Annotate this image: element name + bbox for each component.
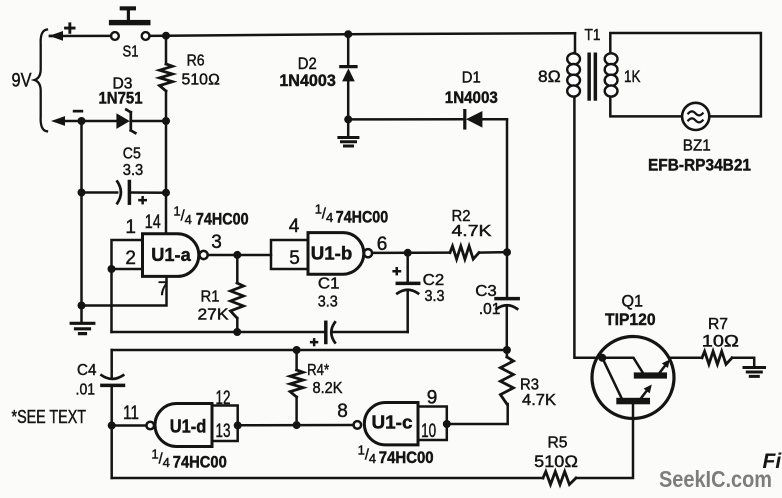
- svg-text:8: 8: [337, 401, 348, 422]
- wire U1-a input bracket pins 1,2: [112, 240, 143, 332]
- wire pin 3 to U1-b inputs: [208, 254, 271, 257]
- svg-text:4.7K: 4.7K: [522, 392, 557, 409]
- svg-text:4.7K: 4.7K: [452, 223, 493, 240]
- diode D1 1N4003: [348, 70, 507, 128]
- svg-text:5: 5: [289, 248, 300, 269]
- svg-text:Q1: Q1: [621, 293, 643, 311]
- wire left column (C5 / ground): [80, 121, 83, 306]
- svg-text:EFB-RP34B21: EFB-RP34B21: [648, 155, 751, 174]
- gate U1-d NAND 74HC00: [146, 404, 212, 447]
- ground (D2 node): [339, 119, 358, 146]
- node negative terminal arrow: [51, 116, 65, 126]
- ground (R7): [744, 368, 765, 377]
- svg-text:T1: T1: [585, 27, 601, 44]
- wire lower oscillator rail: [112, 349, 507, 352]
- svg-text:3.3: 3.3: [425, 288, 445, 305]
- svg-text:8.2K: 8.2K: [313, 380, 344, 397]
- svg-text:510Ω: 510Ω: [182, 71, 221, 88]
- gate U1-c NAND 74HC00: [354, 403, 419, 445]
- svg-text:BZ1: BZ1: [683, 137, 711, 154]
- svg-text:D1: D1: [462, 70, 481, 87]
- svg-text:3.3: 3.3: [123, 162, 144, 179]
- svg-text:R7: R7: [708, 316, 728, 333]
- label 1/4 74HC00 (U1-c): [358, 443, 434, 468]
- svg-text:14: 14: [145, 212, 161, 233]
- svg-text:1: 1: [125, 217, 136, 238]
- capacitor C5 3.3: [82, 146, 167, 205]
- wire U1-d output row: [238, 424, 354, 427]
- ground (C5 / pin 7): [71, 306, 94, 334]
- svg-text:3.3: 3.3: [318, 294, 338, 311]
- svg-text:2: 2: [125, 248, 136, 269]
- resistor R7 10ohm: [702, 316, 740, 365]
- svg-text:TIP120: TIP120: [605, 311, 656, 329]
- svg-text:C5: C5: [123, 146, 141, 163]
- svg-text:C2: C2: [423, 272, 445, 289]
- svg-text:1N4003: 1N4003: [279, 72, 336, 90]
- svg-text:S1: S1: [123, 44, 139, 61]
- label 1/4 74HC00 (U1-a): [173, 204, 248, 229]
- svg-text:Fi: Fi: [763, 450, 782, 473]
- svg-text:1N4003: 1N4003: [445, 89, 498, 107]
- resistor R6 510ohm: [160, 36, 221, 121]
- wire emitter to R7: [670, 358, 755, 366]
- svg-text:74HC00: 74HC00: [336, 209, 388, 227]
- diode D2 1N4003: [279, 34, 356, 119]
- svg-text:C1: C1: [318, 276, 340, 293]
- wire feedback line (pin 2 to C1): [112, 331, 326, 334]
- resistor R2 4.7K: [450, 208, 492, 259]
- svg-text:U1-d: U1-d: [170, 417, 207, 437]
- svg-text:10Ω: 10Ω: [702, 333, 740, 351]
- svg-text:9V: 9V: [12, 71, 32, 92]
- svg-text:R6: R6: [187, 53, 205, 70]
- svg-text:12: 12: [216, 388, 231, 409]
- svg-text:.01: .01: [479, 301, 501, 318]
- label 1/4 74HC00 (U1-d): [151, 447, 226, 472]
- svg-text:.01: .01: [76, 382, 96, 399]
- wire pin 7 to ground: [82, 276, 167, 305]
- node positive terminal arrow: [49, 31, 63, 41]
- resistor R1 27K: [198, 255, 244, 332]
- svg-text:10: 10: [421, 421, 436, 442]
- wire pins 9/10 to R3: [447, 404, 508, 424]
- svg-text:1K: 1K: [624, 68, 641, 86]
- wire collector feed from T1: [574, 96, 602, 358]
- svg-text:D2: D2: [298, 55, 317, 73]
- resistor R3 4.7K: [500, 350, 556, 409]
- wire pin 11 lead: [112, 424, 147, 427]
- wire U1-b input bracket pins 4,5: [271, 240, 308, 269]
- svg-text:11: 11: [123, 403, 139, 424]
- svg-text:R3: R3: [520, 377, 539, 394]
- wire U1-d input box pins 12,13: [212, 406, 238, 442]
- capacitor C4 .01: [76, 350, 124, 478]
- capacitor C1 3.3: [310, 276, 408, 347]
- transistor Q1 TIP120: [592, 293, 674, 419]
- svg-text:C4: C4: [77, 362, 97, 379]
- resistor R5 510ohm: [534, 435, 578, 485]
- wire pin 6 line: [372, 251, 507, 254]
- svg-text:R4*: R4*: [307, 362, 329, 379]
- wire D1 column: [506, 119, 509, 252]
- svg-text:R1: R1: [201, 289, 220, 306]
- svg-text:C3: C3: [475, 283, 497, 300]
- svg-text:74HC00: 74HC00: [196, 211, 249, 229]
- wire D3 node column: [165, 121, 168, 234]
- wire bottom rail: [112, 404, 633, 478]
- svg-text:U1-b: U1-b: [311, 244, 353, 264]
- wire top supply rail: [50, 33, 575, 36]
- svg-text:510Ω: 510Ω: [534, 453, 578, 471]
- capacitor C3 .01: [475, 252, 518, 350]
- svg-text:4: 4: [289, 216, 300, 237]
- resistor R4* 8.2K: [290, 350, 343, 425]
- gate U1-b NAND 74HC00: [308, 233, 372, 275]
- transformer T1: [538, 27, 761, 117]
- gate U1-a NAND 74HC00: [143, 234, 208, 277]
- battery 9V brace: [12, 22, 84, 131]
- zener diode D3 1N751: [99, 75, 143, 133]
- svg-text:U1-c: U1-c: [372, 413, 413, 433]
- svg-text:13: 13: [216, 421, 231, 442]
- svg-text:8Ω: 8Ω: [538, 68, 561, 86]
- buzzer BZ1 EFB-RP34B21: [648, 103, 751, 175]
- svg-text:74HC00: 74HC00: [173, 454, 227, 472]
- wire U1-c input box pins 9,10: [418, 407, 447, 441]
- svg-text:R5: R5: [548, 435, 568, 452]
- svg-text:27K: 27K: [198, 306, 230, 323]
- svg-text:3: 3: [211, 232, 222, 253]
- wire negative lead: [64, 120, 166, 123]
- svg-text:9: 9: [427, 388, 438, 409]
- svg-text:SeekIC.com: SeekIC.com: [659, 466, 772, 492]
- svg-text:1N751: 1N751: [99, 90, 143, 108]
- switch S1 pushbutton: [109, 6, 151, 60]
- svg-text:*SEE TEXT: *SEE TEXT: [12, 407, 87, 427]
- label 1/4 74HC00 (U1-b): [315, 202, 388, 227]
- svg-text:U1-a: U1-a: [151, 245, 192, 265]
- svg-text:74HC00: 74HC00: [379, 449, 434, 467]
- capacitor C2 3.3: [392, 253, 444, 332]
